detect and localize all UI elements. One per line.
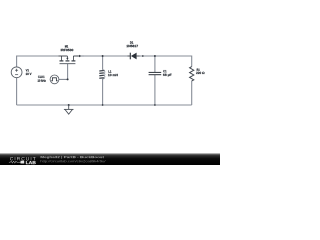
label 10 kHz (38, 79, 46, 81)
wire: V1 top to M1 source (top-left rail) (17, 56, 59, 67)
node: L1 / top rail junction (102, 55, 104, 57)
label CLK1 (38, 76, 44, 78)
logo CIRCUIT (10, 157, 36, 160)
clock source CLK1 (50, 75, 59, 84)
node: C1 / top rail junction (154, 55, 156, 57)
inductor L1 (99, 70, 105, 79)
voltage source V1 (11, 67, 22, 78)
wire: L1 bottom lead (102, 79, 104, 105)
logo chip (21, 161, 25, 164)
ground (64, 105, 74, 114)
capacitor C1 (149, 72, 162, 74)
label 10 mH (108, 74, 118, 76)
node: wire joint on diode anode segment (142, 55, 144, 57)
resistor R1 (190, 67, 194, 81)
node: gate/clock corner joint (67, 78, 69, 80)
footer line 2 (41, 160, 106, 163)
label C1 (163, 70, 166, 72)
wire: C1 bottom lead (154, 75, 156, 105)
label L1 (108, 70, 111, 72)
node: C1 / bottom rail junction (154, 104, 156, 106)
diode D1 (cathode left) (128, 53, 140, 60)
wire: M1 drain to L1 node to D1 cathode (77, 55, 128, 57)
wire: bottom rail (17, 104, 192, 106)
node: L1 / bottom rail junction (102, 104, 104, 106)
wire: V1 bottom lead (16, 78, 18, 105)
logo zigzag (9, 161, 18, 163)
wire: R1 bottom lead (191, 81, 193, 105)
label IRF9530 (61, 49, 73, 51)
label V1 (26, 69, 29, 71)
label 10 V (26, 73, 32, 75)
logo LAB (26, 161, 36, 164)
label M1 (65, 45, 68, 47)
label 220 Ohm (196, 72, 204, 74)
label 68 uF (163, 74, 172, 77)
label R1 (197, 69, 200, 71)
label D1 (130, 41, 133, 43)
label 1N5817 (127, 45, 138, 47)
wire: C1 top lead (154, 56, 156, 72)
wire: D1 anode to C1 node to R1 top (139, 56, 191, 67)
wire: M1 gate to CLK1 (59, 64, 68, 80)
transistor M1 PMOS (59, 55, 85, 64)
node: ground junction on bottom rail (68, 104, 70, 106)
wire: L1 top lead (102, 56, 104, 70)
footer line 1 (41, 156, 104, 159)
